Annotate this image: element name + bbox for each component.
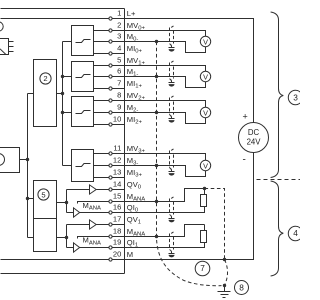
junction dot MANA line at M2- — [155, 111, 158, 114]
svg-text:7: 7 — [200, 263, 205, 273]
terminal 6 connection point — [109, 75, 125, 78]
wire amp QI1 to terminal 19 — [80, 247, 110, 249]
terminal 8 connection point — [109, 99, 125, 102]
wire mux bus to filter box ch3 — [63, 165, 72, 167]
dashed MANA equipotential line — [157, 42, 222, 286]
svg-text:V: V — [203, 108, 208, 117]
dashed QV0 link line — [205, 189, 225, 260]
wire M to DC supply — [125, 153, 254, 260]
mux bus vertical — [62, 42, 64, 166]
wire resistor bottom to QI0 — [125, 207, 205, 213]
wire mux bus to filter box ch1 — [63, 76, 72, 78]
cable sheath ch1 — [169, 63, 171, 79]
op-amp QV1 — [90, 220, 97, 229]
voltmeter V2 — [200, 107, 210, 117]
terminal 17 connection point — [109, 223, 125, 226]
terminal 18 connection point — [109, 235, 125, 238]
wire lower block output — [57, 237, 67, 239]
svg-text:16: 16 — [113, 203, 121, 212]
wire filter ch1 to terminal 6 — [94, 76, 110, 78]
earth ground symbol — [224, 286, 226, 292]
op-amp QV0 — [90, 185, 97, 194]
svg-text:6: 6 — [117, 67, 121, 76]
terminal 15 connection point — [109, 200, 125, 203]
brace section 3 (inputs) — [271, 12, 284, 178]
terminal strip vertical line — [124, 9, 126, 274]
circled 8 label — [235, 281, 249, 295]
voltmeter V0 — [200, 36, 210, 46]
svg-text:8: 8 — [239, 283, 244, 293]
terminal 4 connection point — [109, 52, 125, 55]
cable shield ground ch1 — [170, 79, 172, 83]
terminal 7 connection point — [109, 87, 125, 90]
op-amp QI0 — [74, 208, 80, 217]
junction dot mux bus ch1 — [61, 75, 64, 78]
svg-text:QV0: QV0 — [127, 180, 142, 191]
terminal 11 connection point — [109, 152, 125, 155]
svg-text:V: V — [203, 161, 208, 170]
wire bus to DAC — [28, 198, 34, 200]
svg-text:MV0+: MV0+ — [127, 21, 146, 32]
wire MANA out ch1 step — [125, 225, 205, 237]
input filter box ch0 — [72, 26, 94, 56]
svg-text:9: 9 — [117, 103, 121, 112]
wire L+ to DC supply — [125, 19, 254, 123]
wire MANA out ch0 step — [125, 189, 205, 202]
wire to amp QI1 — [67, 247, 74, 249]
terminal 3 connection point — [109, 40, 125, 43]
terminal 5 connection point — [109, 64, 125, 67]
cable sheath ch3 — [169, 151, 171, 168]
internal bus vertical (left) — [27, 94, 29, 238]
junction dot bus/U1 — [26, 158, 29, 161]
svg-text:5: 5 — [41, 191, 45, 200]
svg-text:15: 15 — [113, 192, 121, 201]
junction dot MANA line at MANA t18 — [155, 235, 158, 238]
svg-text:14: 14 — [113, 180, 121, 189]
junction dot on M wire — [223, 258, 226, 261]
cable sheath ch2 — [169, 98, 171, 115]
svg-text:2: 2 — [43, 74, 47, 83]
svg-text:20: 20 — [113, 250, 121, 259]
wire filter ch3 to terminal 11 — [94, 153, 110, 155]
circled 2 label — [40, 73, 51, 84]
dashed link M to earth — [225, 260, 228, 286]
wire amp QV1 to terminal 17 — [97, 224, 110, 226]
svg-text:M2-: M2- — [127, 103, 139, 114]
cable sheath out ch0 — [169, 199, 171, 215]
net stub MANA (terminal 15) — [78, 202, 110, 204]
wire filter ch3 to terminal 12 — [94, 165, 110, 167]
terminal 2 connection point — [109, 29, 125, 32]
wire filter ch0 to terminal 2 — [94, 30, 110, 32]
terminal 13 connection point — [109, 176, 125, 179]
wire to amp QV0 — [67, 189, 90, 191]
wire M rail to module internals — [1, 259, 110, 261]
wire M1- to voltmeter — [125, 77, 206, 88]
svg-text:8: 8 — [117, 91, 121, 100]
svg-text:M: M — [127, 250, 133, 259]
wire M0- to voltmeter — [125, 42, 206, 53]
terminal 10 connection point — [109, 123, 125, 126]
filter symbol ch1 — [76, 75, 91, 78]
load resistor R2 — [201, 231, 207, 243]
wire MV1+ to voltmeter — [125, 66, 206, 72]
wire amp QV0 to terminal 14 — [97, 189, 110, 191]
wire resistor top ch0 — [204, 189, 206, 195]
wire to amp QI0 — [67, 212, 74, 214]
svg-text:-: - — [243, 155, 246, 166]
svg-text:M0-: M0- — [127, 32, 139, 43]
wire U1 output — [20, 159, 28, 161]
DC 24V source — [239, 123, 269, 153]
svg-text:+: + — [243, 112, 248, 122]
wire block2 output — [57, 93, 63, 95]
backplane bus connector — [0, 39, 14, 55]
DC converter symbol (clipped at left edge) — [0, 22, 3, 31]
cable sheath out ch1 — [169, 234, 171, 250]
svg-text:4: 4 — [293, 228, 298, 238]
terminal 9 connection point — [109, 111, 125, 114]
cable shield ground ch0 — [170, 44, 172, 48]
wire filter ch2 to terminal 8 — [94, 100, 110, 102]
svg-text:19: 19 — [113, 238, 121, 247]
svg-text:MV2+: MV2+ — [127, 91, 146, 102]
module bottom boundary line — [1, 273, 125, 275]
op-amp QI1 — [74, 243, 80, 252]
svg-text:QI1: QI1 — [127, 238, 138, 249]
wire filter ch0 to terminal 3 — [94, 41, 110, 43]
module top boundary line — [1, 8, 125, 10]
svg-text:12: 12 — [113, 156, 121, 165]
wire DAC output — [57, 202, 67, 204]
svg-text:7: 7 — [117, 79, 121, 88]
cable shield ground out ch0 — [170, 215, 172, 219]
svg-text:10: 10 — [113, 115, 121, 124]
filter symbol ch3 — [76, 164, 91, 167]
wire M2- to voltmeter — [125, 113, 206, 124]
block U6 (lower output block) — [34, 219, 57, 252]
svg-text:24V: 24V — [247, 137, 262, 146]
terminal 1 connection point — [109, 17, 125, 20]
wire mux bus to filter box ch0 — [63, 41, 72, 43]
filter symbol ch2 — [76, 111, 91, 114]
amp bus ch0 vertical — [66, 190, 68, 213]
circled 1 label — [0, 154, 5, 166]
block U1 (bus interface, clipped at edge) — [0, 148, 20, 173]
net stub MANA (terminal 18) — [78, 237, 110, 239]
svg-text:4: 4 — [117, 44, 121, 53]
junction dot mux bus ch2 — [61, 111, 64, 114]
cable shield ground ch3 — [170, 168, 172, 172]
wire L+ rail to module internals — [1, 18, 110, 20]
load resistor R1 — [201, 195, 207, 207]
wire filter ch0 to terminal 4 — [94, 53, 110, 55]
junction dot amp bus ch0 — [65, 201, 68, 204]
wire filter ch3 to terminal 13 — [94, 177, 110, 179]
svg-text:MI3+: MI3+ — [127, 168, 143, 179]
cable sheath ch0 — [169, 28, 171, 44]
circled 3 label — [288, 90, 302, 104]
wire filter ch1 to terminal 7 — [94, 88, 110, 90]
block U2 — [34, 60, 57, 127]
wire to amp QV1 — [67, 224, 90, 226]
cable shield ground out ch1 — [170, 250, 172, 254]
wire resistor top ch1 — [204, 225, 206, 231]
dashed section separator — [257, 179, 301, 181]
input filter box ch1 — [72, 62, 94, 92]
wire filter ch1 to terminal 5 — [94, 65, 110, 67]
wire resistor bottom to QI1 — [125, 243, 205, 248]
svg-text:MANA: MANA — [127, 192, 146, 203]
svg-text:M3-: M3- — [127, 156, 139, 167]
circled 4 label — [288, 226, 302, 240]
svg-text:2: 2 — [117, 21, 121, 30]
wire bus to block 2 — [28, 93, 34, 95]
svg-text:11: 11 — [113, 144, 121, 153]
wire filter ch2 to terminal 9 — [94, 112, 110, 114]
svg-text:MANA: MANA — [83, 201, 102, 212]
input filter box ch3 — [72, 150, 94, 182]
wire filter ch2 to terminal 10 — [94, 124, 110, 126]
terminal 19 connection point — [109, 246, 125, 249]
svg-text:MI1+: MI1+ — [127, 79, 143, 90]
wire amp QI0 to terminal 16 — [80, 212, 110, 214]
svg-text:MANA: MANA — [83, 236, 102, 247]
svg-text:MI2+: MI2+ — [127, 115, 143, 126]
filter symbol ch0 — [76, 40, 91, 43]
svg-text:V: V — [203, 72, 208, 81]
svg-text:QI0: QI0 — [127, 203, 139, 214]
block U5 (DAC) — [34, 181, 57, 219]
junction dot amp bus ch1 — [65, 236, 68, 239]
svg-text:3: 3 — [293, 93, 298, 103]
wire bus to lower block — [28, 237, 34, 239]
svg-text:L+: L+ — [127, 9, 136, 18]
circled 7 label — [195, 261, 210, 276]
svg-text:QV1: QV1 — [127, 215, 141, 226]
svg-text:DC: DC — [248, 128, 260, 137]
wire mux bus to filter box ch2 — [63, 112, 72, 114]
junction dot MANA line at M3- — [155, 164, 158, 167]
svg-text:MV3+: MV3+ — [127, 144, 146, 155]
junction dot QV0 tap — [203, 187, 206, 190]
svg-text:18: 18 — [113, 227, 121, 236]
svg-text:MI0+: MI0+ — [127, 44, 143, 55]
wire M3- to voltmeter — [125, 166, 206, 177]
junction dot mux bus block2 — [61, 92, 64, 95]
wire MV2+ to voltmeter — [125, 101, 206, 108]
wire MV0+ to voltmeter — [125, 31, 206, 37]
svg-text:V: V — [203, 37, 208, 46]
svg-text:17: 17 — [113, 215, 121, 224]
svg-text:3: 3 — [117, 32, 121, 41]
terminal 12 connection point — [109, 164, 125, 167]
voltmeter V3 — [200, 160, 210, 170]
terminal 20 connection point — [109, 258, 125, 261]
voltmeter V1 — [200, 71, 210, 81]
terminal 14 connection point — [109, 188, 125, 191]
terminal 16 connection point — [109, 211, 125, 214]
amp bus ch1 vertical — [66, 225, 68, 248]
cable shield ground ch2 — [170, 115, 172, 119]
wire MV3+ to voltmeter — [125, 154, 206, 161]
svg-text:MANA: MANA — [127, 227, 146, 238]
circled 5 label — [38, 189, 49, 200]
junction dot MANA line at M1- — [155, 75, 158, 78]
junction dot MANA line at M0- — [155, 40, 158, 43]
svg-text:M1-: M1- — [127, 67, 139, 78]
junction dot at earth point — [223, 284, 226, 287]
brace section 4 (outputs) — [271, 181, 284, 276]
input filter box ch2 — [72, 97, 94, 127]
svg-text:MV1+: MV1+ — [127, 56, 146, 67]
svg-text:1: 1 — [117, 9, 121, 18]
svg-text:5: 5 — [117, 56, 121, 65]
junction dot MANA line at MANA t15 — [155, 200, 158, 203]
junction dot bus/DAC — [26, 197, 29, 200]
svg-text:13: 13 — [113, 168, 121, 177]
